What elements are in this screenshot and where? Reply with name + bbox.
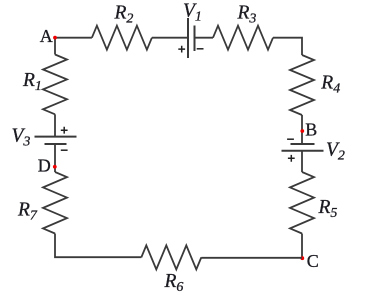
- battery V3: [45, 143, 67, 145]
- plus sign V1: [178, 46, 185, 53]
- resistor R2: [92, 26, 152, 50]
- wire V1 to R3: [195, 37, 214, 39]
- wire R6 to bottom-left corner up to R7: [55, 234, 141, 258]
- resistor R4: [290, 55, 314, 115]
- node D: [53, 165, 57, 169]
- svg-text:R5: R5: [318, 197, 338, 221]
- wire R5 to C: [301, 234, 303, 258]
- wire R7 to D: [54, 144, 56, 172]
- plus sign V3: [61, 127, 68, 134]
- resistor R6: [141, 245, 201, 269]
- minus sign V3: [61, 149, 68, 151]
- resistor R3: [213, 26, 273, 50]
- wire A to R2: [55, 37, 92, 39]
- wire V2 to R5: [301, 151, 303, 172]
- resistor R1: [43, 55, 67, 115]
- svg-text:R7: R7: [17, 200, 38, 224]
- resistor R7: [43, 172, 67, 234]
- node C: [300, 256, 304, 260]
- battery V1: [187, 18, 189, 58]
- svg-text:C: C: [307, 251, 319, 271]
- wire R2 to V1: [152, 37, 188, 39]
- wire R4 to V2: [301, 115, 303, 144]
- svg-text:R3: R3: [237, 2, 257, 26]
- wire V3 to R1: [54, 114, 56, 136]
- plus sign V2: [288, 155, 295, 162]
- wire R1 to A: [54, 38, 56, 55]
- svg-text:V1: V1: [183, 0, 202, 24]
- svg-text:A: A: [40, 26, 53, 46]
- svg-text:V2: V2: [326, 140, 345, 164]
- wire C to R6: [201, 257, 302, 259]
- svg-text:D: D: [38, 156, 51, 176]
- svg-text:R1: R1: [22, 70, 42, 94]
- svg-text:V3: V3: [12, 126, 31, 150]
- battery V2: [291, 143, 315, 145]
- resistor R5: [290, 172, 314, 234]
- svg-text:R6: R6: [164, 271, 184, 295]
- wire R3 to top-right corner down to R4: [273, 38, 302, 55]
- svg-text:B: B: [305, 119, 317, 139]
- node B: [300, 129, 304, 133]
- svg-text:R4: R4: [320, 73, 340, 97]
- svg-text:R2: R2: [114, 2, 134, 26]
- minus sign V2: [287, 138, 294, 140]
- node A: [53, 36, 57, 40]
- minus sign V1: [197, 48, 204, 50]
